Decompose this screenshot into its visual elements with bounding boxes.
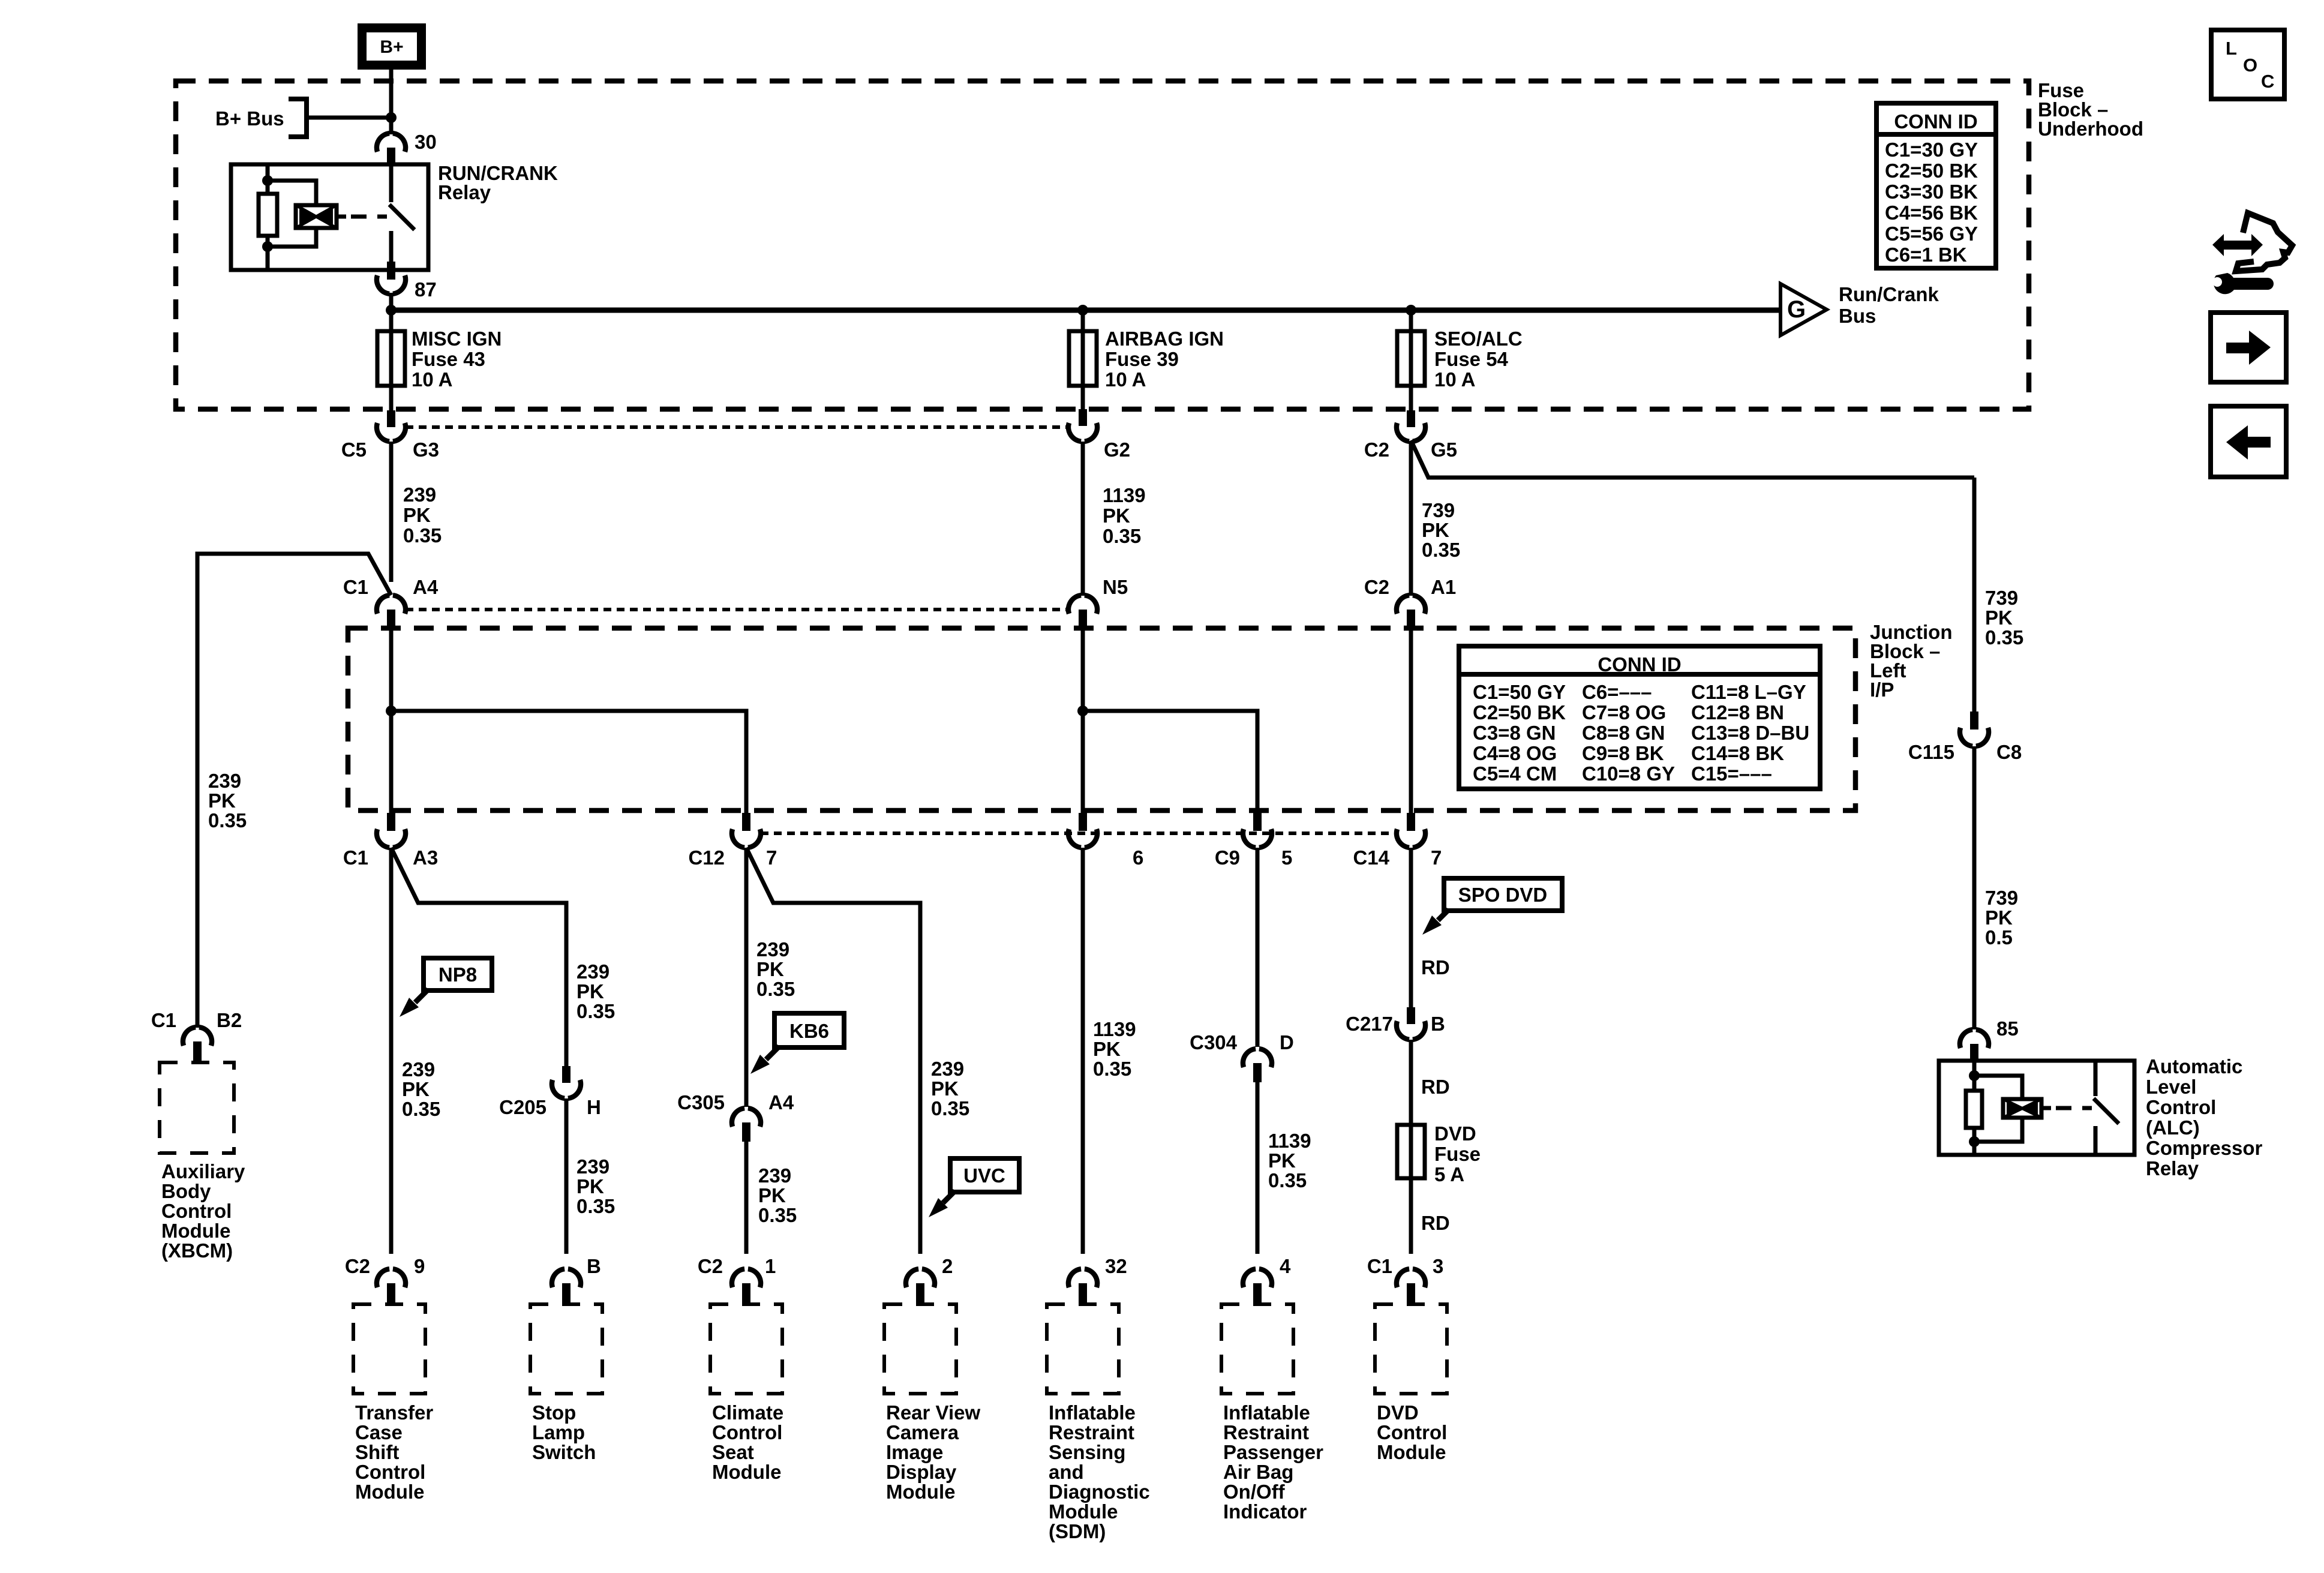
svg-text:Case: Case xyxy=(355,1421,403,1443)
svg-text:1: 1 xyxy=(765,1255,776,1277)
svg-text:SEO/ALC: SEO/ALC xyxy=(1434,328,1523,350)
svg-text:MISC IGN: MISC IGN xyxy=(412,328,502,350)
connector row dotted line C12-C14 xyxy=(761,831,1397,835)
svg-text:Shift: Shift xyxy=(355,1441,399,1463)
wire C305 to C2/1 xyxy=(744,1142,749,1254)
relay switch fixed contact xyxy=(389,164,394,202)
svg-text:C3=8 GN: C3=8 GN xyxy=(1473,722,1556,744)
wire B+ to connector 30 xyxy=(389,70,394,134)
svg-text:Inflatable: Inflatable xyxy=(1049,1401,1136,1424)
svg-text:Run/Crank: Run/Crank xyxy=(1839,283,1939,305)
svg-text:Relay: Relay xyxy=(438,181,491,203)
svg-text:DVD: DVD xyxy=(1377,1401,1419,1424)
svg-text:C2: C2 xyxy=(345,1255,370,1277)
svg-text:AIRBAG IGN: AIRBAG IGN xyxy=(1105,328,1224,350)
svg-text:C4=8 OG: C4=8 OG xyxy=(1473,742,1557,764)
ALC relay coil feed wire xyxy=(1972,1061,1977,1155)
connector 85 pin xyxy=(1970,1044,1978,1062)
connector C1/A4 pin xyxy=(387,610,395,629)
connector 6 socket xyxy=(1068,829,1097,848)
SPO DVD arrow xyxy=(1438,909,1449,920)
svg-text:4: 4 xyxy=(1280,1255,1291,1277)
svg-text:N5: N5 xyxy=(1103,576,1128,598)
connector C5/G3 socket xyxy=(377,423,406,442)
connector C205/H pin xyxy=(562,1066,571,1083)
svg-text:CONN ID: CONN ID xyxy=(1598,653,1681,676)
svg-text:PK: PK xyxy=(577,980,604,1002)
connector C14/7 socket xyxy=(1397,829,1425,848)
ALC relay actuation link xyxy=(2041,1106,2051,1110)
connector C217/B socket xyxy=(1397,1021,1425,1040)
connector B socket xyxy=(552,1269,581,1287)
relay switch lower contact xyxy=(389,231,394,270)
relay solenoid coil xyxy=(296,205,337,228)
svg-text:C6=1 BK: C6=1 BK xyxy=(1885,244,1967,266)
wire C205 to B xyxy=(565,1098,569,1254)
vehicle service icon outline xyxy=(2236,213,2292,271)
connector N5 pin xyxy=(1079,610,1087,629)
svg-text:C10=8 GY: C10=8 GY xyxy=(1582,763,1675,785)
svg-text:0.35: 0.35 xyxy=(1103,525,1141,547)
svg-text:B2: B2 xyxy=(217,1009,242,1031)
svg-text:I/P: I/P xyxy=(1870,679,1894,701)
connector C12/7 pin xyxy=(742,813,750,831)
svg-text:G: G xyxy=(1787,296,1806,323)
wire bus to fuse 39 xyxy=(1081,310,1085,334)
vehicle service icon double arrow xyxy=(2212,234,2263,256)
NP8 option tag box xyxy=(424,958,492,990)
fuse 43 MISC IGN xyxy=(377,331,405,386)
relay coil branch wire lower xyxy=(268,227,316,247)
svg-text:PK: PK xyxy=(1985,607,2013,629)
svg-text:0.35: 0.35 xyxy=(403,524,442,547)
svg-text:PK: PK xyxy=(1985,906,2013,929)
svg-text:Fuse 43: Fuse 43 xyxy=(412,348,485,370)
svg-text:Automatic: Automatic xyxy=(2146,1055,2242,1077)
junction dot B+ bus xyxy=(386,112,397,123)
connector B pin xyxy=(562,1283,571,1304)
svg-text:10 A: 10 A xyxy=(412,368,452,391)
wire A3 to C2/9 xyxy=(389,848,394,1254)
svg-text:Rear View: Rear View xyxy=(886,1401,980,1424)
KB6 option tag box xyxy=(774,1013,844,1047)
connector C304/D pin xyxy=(1253,1063,1262,1082)
svg-text:RD: RD xyxy=(1421,956,1450,978)
connector G2 pin xyxy=(1079,409,1087,426)
svg-text:B: B xyxy=(587,1255,601,1277)
svg-text:PK: PK xyxy=(756,958,784,980)
svg-text:Sensing: Sensing xyxy=(1049,1441,1125,1463)
svg-text:Restraint: Restraint xyxy=(1223,1421,1309,1443)
wire fuse 39 to G2 xyxy=(1081,386,1085,413)
svg-text:Display: Display xyxy=(886,1461,957,1483)
CONN ID table junction block xyxy=(1459,646,1820,789)
svg-text:DVD: DVD xyxy=(1434,1122,1476,1145)
connector C9/5 pin xyxy=(1253,813,1262,831)
svg-text:5: 5 xyxy=(1281,846,1292,869)
svg-text:Fuse 54: Fuse 54 xyxy=(1434,348,1509,370)
connector C2/G5 socket xyxy=(1397,423,1425,442)
svg-text:C1=50 GY: C1=50 GY xyxy=(1473,681,1566,703)
wire branch to passenger C9 xyxy=(1083,711,1257,815)
svg-text:Climate: Climate xyxy=(712,1401,783,1424)
svg-text:Fuse 39: Fuse 39 xyxy=(1105,348,1179,370)
svg-text:PK: PK xyxy=(577,1175,604,1197)
svg-text:C4=56 BK: C4=56 BK xyxy=(1885,202,1978,224)
junction dot passenger branch xyxy=(1077,706,1088,716)
svg-text:PK: PK xyxy=(1422,519,1449,541)
wire bus to fuse 43 xyxy=(389,310,394,334)
connector 30 socket xyxy=(377,133,406,152)
wire G2 to N5 xyxy=(1081,442,1085,596)
svg-text:32: 32 xyxy=(1105,1255,1127,1277)
relay switch blade xyxy=(389,205,415,230)
svg-text:On/Off: On/Off xyxy=(1223,1481,1286,1503)
svg-text:239: 239 xyxy=(208,770,241,792)
svg-text:Image: Image xyxy=(886,1441,943,1463)
svg-text:10 A: 10 A xyxy=(1105,368,1146,391)
connector C1/B2 socket xyxy=(183,1027,212,1046)
svg-text:0.35: 0.35 xyxy=(402,1098,440,1120)
svg-text:Inflatable: Inflatable xyxy=(1223,1401,1310,1424)
ALC relay coil branch lower xyxy=(1974,1117,2022,1142)
wire branch to XBCM xyxy=(197,554,391,1028)
svg-text:739: 739 xyxy=(1422,499,1455,521)
connector 2 socket xyxy=(906,1269,935,1287)
SDM module box xyxy=(1047,1304,1119,1394)
svg-text:RD: RD xyxy=(1421,1212,1450,1234)
wire C12 to C305 xyxy=(744,848,749,1107)
svg-text:739: 739 xyxy=(1985,887,2018,909)
svg-text:PK: PK xyxy=(1093,1038,1121,1060)
wire N5 to 6 xyxy=(1081,629,1085,815)
relay coil resistor xyxy=(259,194,277,236)
svg-text:0.35: 0.35 xyxy=(758,1204,797,1226)
wire branch C12 to camera xyxy=(746,848,920,1254)
svg-text:0.35: 0.35 xyxy=(1093,1058,1131,1080)
svg-text:RD: RD xyxy=(1421,1076,1450,1098)
wire C14 to C217 xyxy=(1409,848,1413,1008)
svg-text:C1: C1 xyxy=(343,846,368,869)
svg-text:PK: PK xyxy=(403,504,431,526)
ALC relay switch blade xyxy=(2094,1098,2119,1124)
svg-text:PK: PK xyxy=(402,1078,430,1100)
svg-text:A4: A4 xyxy=(768,1091,794,1113)
wire A1 to C14 xyxy=(1409,629,1413,815)
connector C205/H socket xyxy=(552,1080,581,1098)
svg-text:239: 239 xyxy=(402,1058,435,1080)
svg-text:C8=8 GN: C8=8 GN xyxy=(1582,722,1665,744)
svg-text:Module: Module xyxy=(712,1461,781,1483)
svg-text:KB6: KB6 xyxy=(789,1020,829,1042)
svg-text:H: H xyxy=(587,1096,601,1118)
ALC relay switch lower contact xyxy=(2094,1126,2098,1155)
connector C2/1 pin xyxy=(742,1283,750,1304)
svg-text:C14: C14 xyxy=(1353,846,1389,869)
svg-text:6: 6 xyxy=(1133,846,1143,869)
wire B+ Bus to main feed xyxy=(307,116,391,120)
svg-text:7: 7 xyxy=(766,846,777,869)
svg-text:0.35: 0.35 xyxy=(577,1000,615,1022)
RUN/CRANK relay box xyxy=(231,164,428,270)
svg-text:C305: C305 xyxy=(677,1091,725,1113)
rear view camera module box xyxy=(884,1304,956,1394)
fuse 39 AIRBAG IGN xyxy=(1069,331,1097,386)
svg-text:1139: 1139 xyxy=(1268,1130,1311,1152)
svg-text:C217: C217 xyxy=(1346,1013,1393,1035)
svg-text:Restraint: Restraint xyxy=(1049,1421,1134,1443)
wire C304 to 4 xyxy=(1256,1082,1260,1254)
svg-text:B+: B+ xyxy=(380,37,403,57)
CONN ID table fuse block xyxy=(1876,103,1996,268)
stop lamp switch module box xyxy=(530,1304,602,1394)
svg-text:C: C xyxy=(2261,71,2274,92)
svg-text:A1: A1 xyxy=(1431,576,1456,598)
vehicle service icon wrench xyxy=(2214,273,2274,294)
svg-text:D: D xyxy=(1280,1031,1294,1053)
XBCM module box xyxy=(160,1062,234,1153)
fuse 54 SEO/ALC xyxy=(1397,331,1425,386)
svg-text:C12=8 BN: C12=8 BN xyxy=(1691,701,1784,724)
svg-text:239: 239 xyxy=(577,960,609,983)
svg-text:9: 9 xyxy=(414,1255,425,1277)
svg-text:Control: Control xyxy=(1377,1421,1447,1443)
svg-text:Lamp: Lamp xyxy=(532,1421,585,1443)
svg-text:C9: C9 xyxy=(1215,846,1240,869)
wire 87 to bus xyxy=(389,293,394,313)
svg-text:C304: C304 xyxy=(1190,1031,1238,1053)
svg-text:3: 3 xyxy=(1433,1255,1443,1277)
svg-text:C2: C2 xyxy=(1364,439,1389,461)
relay coil feed wire xyxy=(266,164,270,270)
relay coil node lower xyxy=(262,241,273,252)
relay actuation link xyxy=(337,215,346,219)
svg-text:C1: C1 xyxy=(343,576,368,598)
connector C217/B pin xyxy=(1407,1007,1415,1024)
ALC relay coil node lower xyxy=(1969,1136,1980,1147)
svg-text:Camera: Camera xyxy=(886,1421,959,1443)
svg-text:UVC: UVC xyxy=(963,1164,1005,1187)
svg-text:C2=50 BK: C2=50 BK xyxy=(1885,160,1978,182)
svg-text:PK: PK xyxy=(208,789,236,812)
junction dot airbag ign xyxy=(1077,305,1088,316)
svg-text:239: 239 xyxy=(577,1155,609,1178)
wire C8 to 85 xyxy=(1972,746,1977,1029)
connector 32 socket xyxy=(1068,1269,1097,1287)
svg-text:Switch: Switch xyxy=(532,1441,596,1463)
svg-text:CONN ID: CONN ID xyxy=(1894,110,1977,133)
svg-text:Control: Control xyxy=(712,1421,782,1443)
KB6 arrow xyxy=(766,1046,779,1059)
wire A4 to A3 xyxy=(389,629,394,815)
svg-text:C3=30 BK: C3=30 BK xyxy=(1885,181,1978,203)
connector C1/3 socket xyxy=(1397,1269,1425,1287)
connector 2 pin xyxy=(916,1283,924,1304)
svg-text:Control: Control xyxy=(2146,1096,2216,1118)
svg-text:C2: C2 xyxy=(698,1255,723,1277)
svg-text:239: 239 xyxy=(758,1164,791,1187)
connector C1/3 pin xyxy=(1407,1283,1415,1304)
SPO DVD option tag box xyxy=(1444,878,1562,911)
connector C305/A4 pin xyxy=(742,1122,750,1142)
svg-text:Module: Module xyxy=(161,1220,230,1242)
relay coil node upper xyxy=(262,175,273,186)
ALC relay coil branch upper xyxy=(1974,1076,2022,1100)
svg-text:C1=30 GY: C1=30 GY xyxy=(1885,139,1978,161)
svg-text:PK: PK xyxy=(1103,505,1130,527)
svg-text:PK: PK xyxy=(758,1184,786,1206)
svg-text:239: 239 xyxy=(403,484,436,506)
svg-text:Diagnostic: Diagnostic xyxy=(1049,1481,1150,1503)
connector C2/9 socket xyxy=(377,1269,406,1287)
svg-text:C12: C12 xyxy=(688,846,725,869)
svg-text:(XBCM): (XBCM) xyxy=(161,1239,233,1262)
connector C12/7 socket xyxy=(732,829,761,848)
svg-text:Module: Module xyxy=(355,1481,424,1503)
wire fuse 54 to C2 G5 xyxy=(1409,386,1413,413)
ALC relay solenoid coil xyxy=(2003,1099,2041,1118)
connector C2/G5 pin xyxy=(1407,410,1415,427)
svg-text:0.35: 0.35 xyxy=(1268,1169,1307,1191)
svg-text:C11=8 L–GY: C11=8 L–GY xyxy=(1691,681,1806,703)
backward reference arrow box xyxy=(2211,406,2286,477)
svg-text:C5=56 GY: C5=56 GY xyxy=(1885,223,1978,245)
svg-text:Module: Module xyxy=(886,1481,955,1503)
B+ power feed symbol xyxy=(358,23,426,70)
junction dot climate branch xyxy=(386,706,397,716)
NP8 arrow xyxy=(415,989,428,1002)
svg-text:2: 2 xyxy=(942,1255,953,1277)
svg-text:C7=8 OG: C7=8 OG xyxy=(1582,701,1666,724)
junction block dashed boundary xyxy=(348,628,1855,810)
svg-text:1139: 1139 xyxy=(1103,484,1146,506)
svg-text:Auxiliary: Auxiliary xyxy=(161,1160,245,1182)
svg-text:(ALC): (ALC) xyxy=(2146,1116,2200,1139)
connector C305/A4 socket xyxy=(732,1108,761,1127)
wire branch A3 to stop lamp xyxy=(391,848,566,1068)
ALC relay switch fixed contact xyxy=(2094,1061,2098,1096)
svg-text:C5: C5 xyxy=(341,439,367,461)
svg-text:87: 87 xyxy=(415,278,437,301)
connector 85 socket xyxy=(1960,1029,1989,1048)
UVC arrow xyxy=(943,1191,955,1203)
svg-text:30: 30 xyxy=(415,131,437,153)
transfer case module box xyxy=(353,1304,425,1394)
climate control module box xyxy=(710,1304,782,1394)
svg-text:Fuse: Fuse xyxy=(1434,1143,1481,1165)
svg-text:Passenger: Passenger xyxy=(1223,1441,1323,1463)
wire 6 to 32 xyxy=(1081,848,1085,1254)
svg-text:1139: 1139 xyxy=(1093,1018,1136,1040)
svg-text:0.35: 0.35 xyxy=(931,1097,969,1119)
svg-text:0.35: 0.35 xyxy=(756,978,795,1000)
svg-text:L: L xyxy=(2226,38,2237,59)
LOC icon box xyxy=(2211,30,2284,99)
svg-text:Air Bag: Air Bag xyxy=(1223,1461,1293,1483)
svg-text:G3: G3 xyxy=(413,439,439,461)
svg-text:Seat: Seat xyxy=(712,1441,754,1463)
connector C1/A4 socket xyxy=(377,595,406,614)
ALC compressor relay box xyxy=(1939,1061,2134,1155)
svg-text:239: 239 xyxy=(756,938,789,960)
svg-text:7: 7 xyxy=(1431,846,1442,869)
wire fuse 43 to C5 xyxy=(389,386,394,413)
svg-text:0.5: 0.5 xyxy=(1985,926,2013,948)
connector 32 pin xyxy=(1079,1283,1087,1304)
svg-text:C2=50 BK: C2=50 BK xyxy=(1473,701,1566,724)
connector C115/C8 pin xyxy=(1970,712,1978,730)
connector C2/1 socket xyxy=(732,1269,761,1287)
connector 4 pin xyxy=(1253,1283,1262,1304)
svg-text:Compressor: Compressor xyxy=(2146,1137,2263,1159)
svg-text:Stop: Stop xyxy=(532,1401,576,1424)
connector G2 socket xyxy=(1068,423,1097,442)
svg-text:C205: C205 xyxy=(499,1096,547,1118)
wire branch to climate C12 xyxy=(391,711,746,815)
wire G5 down to C2/A1 xyxy=(1409,442,1413,596)
connector 4 socket xyxy=(1243,1269,1272,1287)
svg-text:A4: A4 xyxy=(413,576,439,598)
run/crank bus wire xyxy=(391,308,1780,313)
svg-text:C15=–––: C15=––– xyxy=(1691,763,1772,785)
svg-text:SPO DVD: SPO DVD xyxy=(1458,884,1548,906)
run/crank bus off-page tag G xyxy=(1780,284,1827,335)
ALC relay coil resistor xyxy=(1966,1091,1982,1128)
wire DVD fuse to C1/3 xyxy=(1409,1178,1413,1254)
junction dot seo/alc xyxy=(1406,305,1416,316)
wire C217 to DVD fuse xyxy=(1409,1040,1413,1125)
connector row dotted line C5-G2 xyxy=(406,425,1068,429)
svg-text:Bus: Bus xyxy=(1839,305,1876,327)
svg-text:Body: Body xyxy=(161,1180,211,1202)
svg-text:G2: G2 xyxy=(1104,439,1130,461)
connector 6 pin xyxy=(1079,813,1087,831)
svg-text:Indicator: Indicator xyxy=(1223,1500,1307,1523)
connector C5/G3 pin xyxy=(387,410,395,427)
svg-text:Control: Control xyxy=(355,1461,425,1483)
svg-text:and: and xyxy=(1049,1461,1084,1483)
connector C304/D socket xyxy=(1243,1049,1272,1067)
svg-text:10 A: 10 A xyxy=(1434,368,1475,391)
wire 739 right down to C115 xyxy=(1972,478,1977,714)
svg-text:0.35: 0.35 xyxy=(1422,539,1460,561)
DVD control module box xyxy=(1375,1304,1447,1394)
B+ Bus bracket xyxy=(289,99,307,137)
svg-text:Underhood: Underhood xyxy=(2038,118,2143,140)
svg-text:0.35: 0.35 xyxy=(1985,626,2023,649)
svg-text:Relay: Relay xyxy=(2146,1157,2199,1179)
connector C1/A3 socket xyxy=(377,829,406,848)
svg-text:C14=8 BK: C14=8 BK xyxy=(1691,742,1784,764)
wire C5 to C1/A4 xyxy=(389,442,394,582)
svg-text:5 A: 5 A xyxy=(1434,1163,1464,1185)
svg-text:A3: A3 xyxy=(413,846,438,869)
connector N5 socket xyxy=(1068,595,1097,614)
svg-text:Level: Level xyxy=(2146,1076,2196,1098)
connector C1/A3 pin xyxy=(387,813,395,831)
svg-text:0.35: 0.35 xyxy=(577,1195,615,1217)
svg-text:Module: Module xyxy=(1049,1500,1118,1523)
svg-text:0.35: 0.35 xyxy=(208,809,247,831)
fuse block underhood dashed boundary xyxy=(176,81,2029,409)
svg-text:B+ Bus: B+ Bus xyxy=(215,107,284,130)
connector C14/7 pin xyxy=(1407,813,1415,831)
svg-text:Control: Control xyxy=(161,1200,232,1222)
UVC option tag box xyxy=(950,1158,1019,1192)
connector C1/B2 pin xyxy=(193,1041,202,1061)
svg-text:(SDM): (SDM) xyxy=(1049,1520,1106,1542)
connector C2/A1 pin xyxy=(1407,610,1415,629)
